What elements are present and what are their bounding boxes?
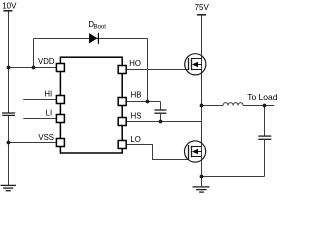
svg-text:HO: HO xyxy=(129,59,141,68)
svg-text:10V: 10V xyxy=(2,1,17,10)
svg-text:HB: HB xyxy=(131,91,142,100)
svg-text:HS: HS xyxy=(131,111,142,120)
svg-text:HI: HI xyxy=(44,89,52,98)
svg-text:75V: 75V xyxy=(195,3,210,12)
svg-text:LO: LO xyxy=(130,135,140,144)
svg-text:To Load: To Load xyxy=(247,92,278,102)
svg-text:VDD: VDD xyxy=(38,57,55,66)
svg-text:LI: LI xyxy=(46,109,53,118)
svg-text:VSS: VSS xyxy=(38,133,54,142)
svg-text:Boot: Boot xyxy=(94,25,107,31)
